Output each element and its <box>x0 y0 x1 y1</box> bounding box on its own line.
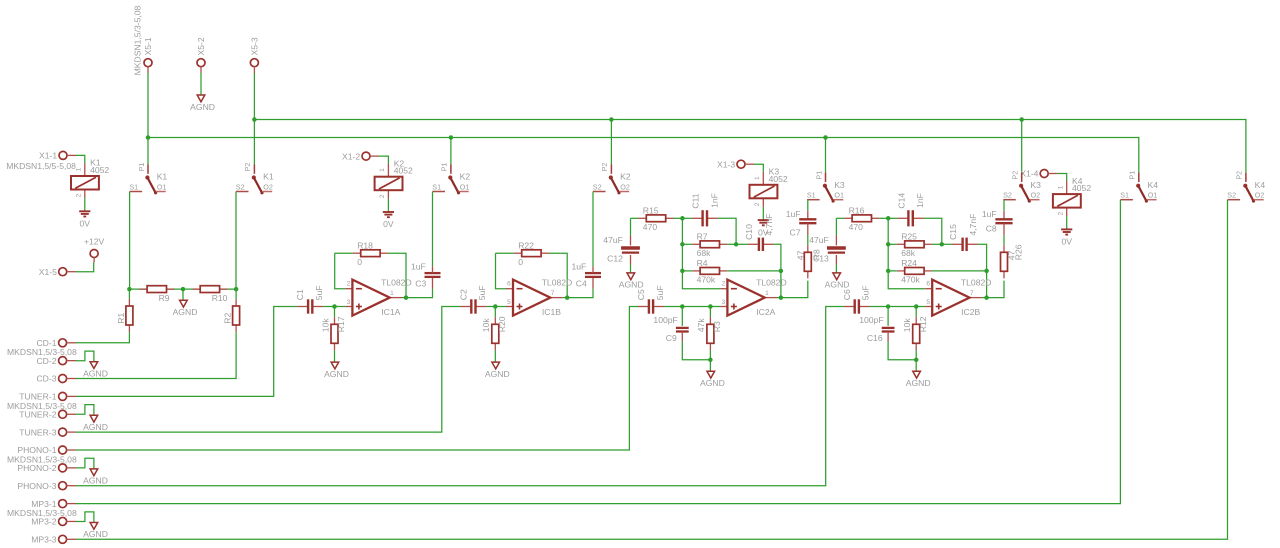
junction R9/R10/AGND <box>181 287 186 292</box>
svg-text:0: 0 <box>357 257 362 267</box>
svg-text:1uF: 1uF <box>982 209 997 219</box>
wire PHONO-3 to C6 <box>76 307 844 486</box>
svg-text:3: 3 <box>347 299 351 306</box>
wire C12 node to R15 <box>631 217 639 219</box>
junction feedback/R7 <box>680 242 685 247</box>
resistor R2 <box>233 299 240 332</box>
svg-text:P1: P1 <box>814 171 823 180</box>
svg-text:IC2B: IC2B <box>961 307 980 317</box>
relay switch K4 contact 1 <box>1120 171 1158 203</box>
svg-text:5uF: 5uF <box>477 285 487 300</box>
relay switch K4 contact 2 <box>1227 171 1265 203</box>
junction R16/C14 <box>886 216 891 221</box>
svg-text:2: 2 <box>1057 212 1064 216</box>
wire R22 to output node <box>549 253 567 297</box>
capacitor C14 1nF <box>897 193 926 227</box>
svg-text:R15: R15 <box>643 206 659 216</box>
wire K1 S2 down to R2/R10 node <box>235 192 237 290</box>
svg-text:O2: O2 <box>263 182 273 191</box>
wire bus B down to K3 P1 <box>825 138 827 173</box>
svg-text:R18: R18 <box>357 240 373 250</box>
resistor R7 68k <box>692 232 727 259</box>
relay switch K1 contact 2 <box>236 163 274 195</box>
wire K1 coil to 0V <box>84 198 86 211</box>
wire K3 coil to 0V <box>762 207 764 220</box>
wire to C14 <box>888 217 897 219</box>
wire C16 bottom rail <box>888 342 916 360</box>
capacitor C8 1uF <box>995 219 1012 223</box>
svg-text:R20: R20 <box>497 316 507 332</box>
wire C11 down to R7 node <box>718 218 736 244</box>
svg-text:O2: O2 <box>620 182 630 191</box>
svg-text:TL082D: TL082D <box>381 277 412 287</box>
pin stub C7 bottom <box>807 223 809 234</box>
svg-text:IC2A: IC2A <box>756 307 775 317</box>
svg-text:R25: R25 <box>901 232 917 242</box>
wire feedback to R25 <box>888 243 897 245</box>
svg-text:C11: C11 <box>691 193 701 208</box>
pin stub CD-1 <box>66 342 76 344</box>
wire to C15 <box>942 243 952 245</box>
resistor R1 <box>126 299 133 332</box>
pin stub C13 bottom <box>835 255 837 265</box>
op-amp IC1B <box>506 277 572 317</box>
op-amp IC2A <box>720 277 786 317</box>
svg-text:P2: P2 <box>1011 171 1020 180</box>
svg-text:AGND: AGND <box>83 476 108 486</box>
svg-text:X5-2: X5-2 <box>196 37 206 55</box>
junction bottom rail <box>914 358 919 363</box>
relay switch K2 contact 2 <box>593 163 631 195</box>
svg-text:470: 470 <box>849 222 864 232</box>
wire bus A down to K2 P2 <box>610 120 612 165</box>
wire X5-1 down to K1 P1 <box>147 73 149 164</box>
pin stub C4 bottom <box>592 277 594 288</box>
wire +in node down to R17 <box>334 307 336 318</box>
svg-text:C8: C8 <box>986 224 997 234</box>
svg-text:C9: C9 <box>666 333 677 343</box>
ground AGND at TUNER-2 <box>83 415 108 432</box>
wire C1 to +in of IC1A <box>323 306 345 308</box>
relay coil K4 <box>1048 174 1091 217</box>
capacitor C4 1uF <box>585 273 601 277</box>
wire feedback to R4 <box>682 270 692 272</box>
svg-text:100pF: 100pF <box>653 315 677 325</box>
connector pin PHONO-3 <box>59 482 67 490</box>
pin stub MP3-3 <box>66 538 76 540</box>
svg-text:R12: R12 <box>918 316 928 332</box>
pin stub C12 bottom <box>630 255 632 265</box>
wire C12 to AGND <box>630 265 632 273</box>
svg-text:AGND: AGND <box>83 529 108 539</box>
wire C6 to +in of IC2B <box>870 306 925 308</box>
wire to C11 <box>682 217 691 219</box>
pin stub C8 top <box>1003 211 1005 220</box>
ground AGND at X5-2 <box>190 95 215 112</box>
pin stub CD-2 <box>66 360 76 362</box>
svg-text:K2: K2 <box>620 172 631 182</box>
resistor R9 <box>139 286 174 303</box>
ground AGND below R20 <box>485 362 510 379</box>
ground AGND at CD-2 <box>83 362 108 379</box>
svg-text:P2: P2 <box>600 163 609 172</box>
svg-text:2: 2 <box>722 281 726 288</box>
svg-text:5uF: 5uF <box>861 285 871 300</box>
op-amp IC1A <box>345 277 411 317</box>
junction X5-1 / bus B <box>146 135 151 140</box>
ground 0V of K1 <box>79 211 90 228</box>
wire output to R8 <box>781 281 808 298</box>
svg-text:R22: R22 <box>518 240 534 250</box>
svg-text:1uF: 1uF <box>411 262 426 272</box>
svg-text:R24: R24 <box>901 258 917 268</box>
capacitor C1 5uF <box>295 285 324 313</box>
svg-text:S1: S1 <box>807 191 816 200</box>
wire X1-3 to K3 coil <box>754 164 763 172</box>
svg-text:1: 1 <box>1057 185 1064 189</box>
connector pin X5-3 <box>250 59 258 67</box>
svg-text:P2: P2 <box>243 163 252 172</box>
pin stub TUNER-1 <box>66 395 76 397</box>
wire C8 to R26 <box>1003 235 1005 246</box>
svg-text:470: 470 <box>643 222 658 232</box>
pin stub PHONO-2 <box>66 467 76 469</box>
svg-text:CD-3: CD-3 <box>36 374 56 384</box>
wire R9/R10 row <box>129 288 236 290</box>
junction R3 top <box>708 304 713 309</box>
op-amp IC2B <box>925 277 991 317</box>
junction feedback/R4 <box>680 269 685 274</box>
junction bus B / K2 P1 <box>449 135 454 140</box>
ground AGND below R3 <box>700 371 725 388</box>
junction output node IC2A <box>779 295 784 300</box>
wire C2 to +in of IC1B <box>486 306 506 308</box>
wire R3 bottom <box>709 350 711 359</box>
svg-text:1: 1 <box>390 290 394 297</box>
wire right vertical to output <box>986 271 988 298</box>
wire output node to C4 <box>567 289 593 298</box>
svg-text:TUNER-3: TUNER-3 <box>19 427 56 437</box>
svg-text:O2: O2 <box>1255 191 1265 200</box>
pin stub X1-5 <box>66 271 76 273</box>
connector pin X1-1 <box>59 151 67 159</box>
svg-text:P1: P1 <box>1128 171 1137 180</box>
connector pin TUNER-1 <box>59 392 67 400</box>
wire output to R26 <box>987 281 1004 298</box>
junction R1/R9/K1-S1 <box>127 287 132 292</box>
wire bottom rail to AGND <box>709 360 711 371</box>
resistor R3 47k <box>696 317 722 350</box>
svg-text:1uF: 1uF <box>571 262 586 272</box>
svg-text:1: 1 <box>379 168 386 172</box>
svg-text:AGND: AGND <box>485 369 510 379</box>
ground AGND below R12 <box>906 371 931 388</box>
wire feedback to R24 <box>888 270 897 272</box>
svg-text:2: 2 <box>379 194 386 198</box>
junction output node IC1A <box>404 295 409 300</box>
svg-text:TL082D: TL082D <box>756 277 787 287</box>
connector pin X1-2 <box>362 152 370 160</box>
junction feedback/R24 <box>886 269 891 274</box>
wire switch contact down to C7 <box>807 200 809 211</box>
svg-text:C15: C15 <box>948 224 958 240</box>
svg-text:4052: 4052 <box>90 165 109 175</box>
junction +in node IC1B <box>493 304 498 309</box>
resistor R20 10k <box>481 316 507 350</box>
svg-text:X1-1: X1-1 <box>39 151 57 161</box>
wire K4 S2 down to MP3-3 <box>76 200 1228 540</box>
pin stub C13 top <box>835 235 837 245</box>
svg-text:S2: S2 <box>593 182 602 191</box>
svg-text:4,7nF: 4,7nF <box>764 214 774 236</box>
svg-text:C12: C12 <box>607 254 623 264</box>
relay coil K2 <box>370 156 413 199</box>
svg-text:K3: K3 <box>1030 180 1041 190</box>
svg-text:C10: C10 <box>744 224 754 240</box>
svg-text:6: 6 <box>507 281 511 288</box>
relay coil K1 <box>67 155 110 198</box>
wire bus B down to K2 P1 <box>450 138 452 165</box>
svg-text:O2: O2 <box>1031 191 1041 200</box>
wire down to C16 <box>887 307 889 326</box>
wire R25 to C15 node <box>932 243 942 245</box>
svg-text:R7: R7 <box>697 232 708 242</box>
svg-text:AGND: AGND <box>190 102 215 112</box>
wire R4 right <box>727 270 781 272</box>
wire IC1B output <box>563 297 568 299</box>
wire X1-1 to K1 coil <box>76 155 85 163</box>
resistor R12 10k <box>902 316 928 350</box>
ground AGND below C12 <box>619 273 644 290</box>
svg-text:O1: O1 <box>460 182 470 191</box>
svg-text:CD-2: CD-2 <box>36 356 56 366</box>
svg-text:S1: S1 <box>1120 191 1129 200</box>
svg-text:1: 1 <box>76 167 83 171</box>
svg-text:K3: K3 <box>834 180 845 190</box>
svg-text:4052: 4052 <box>769 174 788 184</box>
svg-text:7: 7 <box>551 290 555 297</box>
junction +in node IC1A <box>332 304 337 309</box>
wire output node to C3 <box>406 289 433 298</box>
svg-text:K4: K4 <box>1255 180 1266 190</box>
pin stub C7 top <box>807 211 809 220</box>
svg-text:IC1A: IC1A <box>381 307 400 317</box>
svg-text:S2: S2 <box>1227 191 1236 200</box>
svg-text:10k: 10k <box>481 318 491 333</box>
svg-text:AGND: AGND <box>173 307 198 317</box>
pin stub X5-2 <box>200 66 202 73</box>
junction R4 right <box>779 269 784 274</box>
svg-text:P1: P1 <box>137 163 146 172</box>
svg-text:AGND: AGND <box>906 378 931 388</box>
svg-text:AGND: AGND <box>83 422 108 432</box>
resistor R24 470k <box>897 258 932 285</box>
wire K1 S1 down to R1/R9 node <box>129 192 131 290</box>
capacitor C6 5uF <box>842 285 871 313</box>
svg-text:0V: 0V <box>80 219 91 229</box>
resistor R22 0 <box>514 240 549 267</box>
resistor R26 47 <box>1001 244 1024 278</box>
connector pin CD-3 <box>59 375 67 383</box>
junction C14/R25/C15 <box>940 242 945 247</box>
pin stub X5-1 <box>147 66 149 73</box>
svg-text:O1: O1 <box>834 191 844 200</box>
svg-text:X1-4: X1-4 <box>1020 169 1038 179</box>
svg-text:47k: 47k <box>696 318 706 333</box>
junction R12 top <box>914 304 919 309</box>
resistor R4 470k <box>692 258 727 285</box>
wire C9 bottom rail <box>682 342 710 360</box>
wire X5-2 to AGND <box>200 73 202 95</box>
svg-text:1nF: 1nF <box>709 193 719 208</box>
wire PHONO-1 to C5 <box>76 307 638 451</box>
wire down to C12 <box>630 218 632 235</box>
svg-text:C3: C3 <box>415 279 426 289</box>
connector pin X1-5 <box>59 268 67 276</box>
relay switch K1 contact 1 <box>129 163 167 195</box>
wire bus A (X5-3 net) to K4 P2 <box>254 120 1246 173</box>
svg-text:5: 5 <box>507 299 511 306</box>
svg-text:68k: 68k <box>697 248 712 258</box>
svg-text:AGND: AGND <box>700 378 725 388</box>
wire down to R3 <box>709 307 711 318</box>
wire right vertical to output <box>780 271 782 298</box>
svg-text:R4: R4 <box>697 258 708 268</box>
ground AGND at MP3-2 <box>83 523 108 540</box>
svg-text:K1: K1 <box>157 172 168 182</box>
svg-text:1: 1 <box>765 290 769 297</box>
wire K2 S1 down to C3 <box>432 192 434 267</box>
resistor R10 <box>192 286 227 303</box>
svg-text:R17: R17 <box>336 316 346 332</box>
connector pin MP3-1 <box>59 500 67 508</box>
pin stub C12 top <box>630 235 632 245</box>
wire R15 to feedback node <box>674 217 683 219</box>
svg-text:1nF: 1nF <box>915 193 925 208</box>
svg-text:TL082D: TL082D <box>542 277 573 287</box>
ground AGND below R17 <box>324 362 349 379</box>
connector pin X5-2 <box>197 59 205 67</box>
wire feedback to -in of IC1B <box>496 253 507 289</box>
resistor R17 10k <box>320 316 346 350</box>
svg-text:AGND: AGND <box>825 280 850 290</box>
svg-text:S2: S2 <box>1003 191 1012 200</box>
ground AGND below C13 <box>825 273 850 290</box>
pin stub PHONO-3 <box>66 485 76 487</box>
svg-text:C6: C6 <box>842 289 852 300</box>
wire K2 coil to 0V <box>387 199 389 212</box>
wire R7 to C10 node <box>727 243 736 245</box>
svg-text:K4: K4 <box>1148 180 1159 190</box>
pin stub CD-3 <box>66 378 76 380</box>
ground AGND at PHONO-2 <box>83 469 108 486</box>
svg-text:X1-2: X1-2 <box>342 151 360 161</box>
svg-text:K2: K2 <box>460 172 471 182</box>
svg-text:5uF: 5uF <box>314 285 324 300</box>
svg-text:S1: S1 <box>432 182 441 191</box>
wire TUNER-3 to C2 <box>76 307 460 433</box>
svg-text:470k: 470k <box>697 275 716 285</box>
junction output node IC1B <box>565 295 570 300</box>
wire feedback to R7 <box>682 243 692 245</box>
svg-text:68k: 68k <box>901 248 916 258</box>
svg-text:47uF: 47uF <box>809 235 829 245</box>
connector pin TUNER-2 <box>59 410 67 418</box>
connector pin X1-3 <box>737 160 745 168</box>
wire to C10 <box>736 243 748 245</box>
wire X5-3 down to K1 P2 <box>253 73 255 164</box>
wire PHONO-2 to AGND <box>76 458 94 468</box>
svg-text:X5-1: X5-1 <box>143 37 153 55</box>
svg-text:2: 2 <box>347 281 351 288</box>
svg-text:O1: O1 <box>157 182 167 191</box>
svg-text:MP3-2: MP3-2 <box>31 517 57 527</box>
svg-text:R9: R9 <box>159 293 170 303</box>
wire X1-2 to K2 coil <box>379 156 388 164</box>
wire X1-4 to K4 coil <box>1057 174 1067 182</box>
capacitor C16 100pF <box>882 328 895 332</box>
pin stub C16 bottom <box>887 332 889 342</box>
junction bus A / K3 P2 <box>1019 117 1024 122</box>
wire C5 to +in of IC2A <box>664 306 720 308</box>
wire IC2A output <box>777 297 781 299</box>
svg-text:0V: 0V <box>383 219 394 229</box>
wire K4 S1 down to MP3-1 <box>76 200 1120 504</box>
svg-text:P2: P2 <box>1235 171 1244 180</box>
svg-text:X1-5: X1-5 <box>39 267 57 277</box>
svg-text:C16: C16 <box>867 333 883 343</box>
junction C11/R7/C10 <box>734 242 739 247</box>
resistor R16 470 <box>844 206 879 233</box>
connector pin X5-1 <box>144 59 152 67</box>
junction feedback/R25 <box>886 242 891 247</box>
svg-text:C7: C7 <box>790 228 801 238</box>
pin stub MP3-2 <box>66 520 76 522</box>
svg-text:5uF: 5uF <box>655 285 665 300</box>
wire CD-1 to R1 <box>76 332 129 343</box>
svg-text:R1: R1 <box>116 312 126 323</box>
wire C15 down to R24 <box>978 244 987 271</box>
svg-text:C14: C14 <box>897 193 907 209</box>
junction bus B / K3 P1 <box>823 135 828 140</box>
relay switch K3 contact 1 <box>807 171 845 203</box>
capacitor C11 1nF <box>691 193 720 226</box>
resistor R25 68k <box>897 232 932 259</box>
wire switch contact down to C8 <box>1003 200 1005 211</box>
svg-text:AGND: AGND <box>83 369 108 379</box>
svg-text:10k: 10k <box>320 318 330 333</box>
wire TUNER-1 to C1 <box>76 307 297 397</box>
wire R9/R10 node to AGND <box>182 289 184 300</box>
ground 0V of K4 <box>1061 229 1072 246</box>
pin stub C9 bottom <box>681 332 683 342</box>
svg-text:P1: P1 <box>440 163 449 172</box>
pin stub TUNER-3 <box>66 431 76 433</box>
svg-text:R3: R3 <box>712 321 722 332</box>
wire K4 coil to 0V <box>1066 216 1068 229</box>
wire feedback vertical to -in of IC2A <box>682 218 720 288</box>
svg-text:+12V: +12V <box>84 237 105 247</box>
svg-text:47uF: 47uF <box>603 235 623 245</box>
relay switch K2 contact 1 <box>432 163 470 195</box>
svg-text:2: 2 <box>754 202 761 206</box>
wire R12 bottom <box>915 350 917 359</box>
wire down to C13 <box>835 218 837 235</box>
svg-text:C2: C2 <box>458 289 468 300</box>
svg-text:R26: R26 <box>1014 244 1024 260</box>
svg-text:7: 7 <box>970 290 974 297</box>
capacitor C10 4,7nF <box>744 214 774 251</box>
